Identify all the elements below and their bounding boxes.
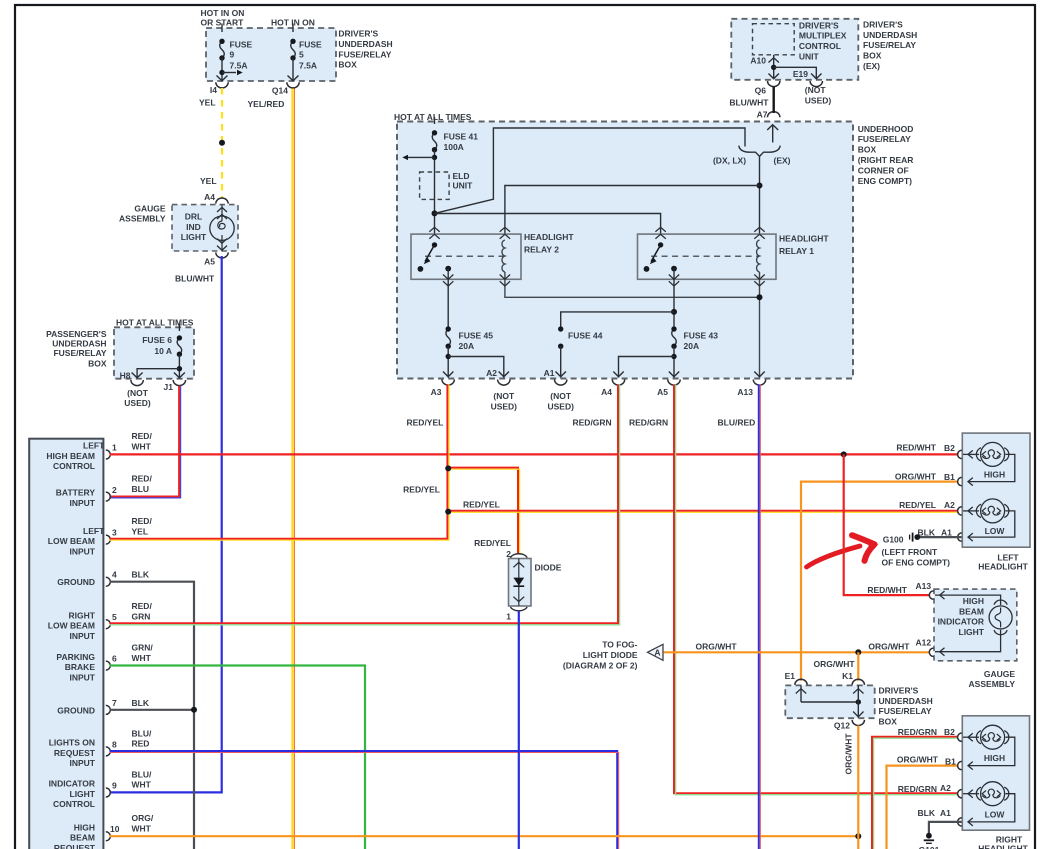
A1 connector (958, 533, 962, 541)
B2 connector (right) (958, 733, 962, 741)
svg-text:USED): USED) (547, 401, 574, 411)
svg-text:INPUT: INPUT (70, 546, 96, 556)
svg-text:BATTERY: BATTERY (56, 488, 96, 498)
svg-text:RED/GRN: RED/GRN (898, 784, 937, 794)
multiplex output wire (773, 55, 775, 79)
svg-text:LIGHT: LIGHT (181, 232, 207, 242)
H8 connector (131, 380, 143, 386)
svg-text:H8: H8 (120, 371, 131, 381)
svg-text:LIGHTS ON: LIGHTS ON (49, 738, 95, 748)
svg-text:A13: A13 (916, 581, 932, 591)
svg-text:BLU/: BLU/ (132, 769, 152, 779)
A4 exit arrow (613, 372, 623, 377)
wire RED/YEL A3 to pin 3 (110, 385, 448, 539)
A2 connector (958, 507, 962, 515)
svg-text:10: 10 (110, 824, 120, 834)
branch to H8 (137, 369, 179, 378)
wire YEL dashed I4 to A4 (221, 88, 223, 199)
I4 exit arrow (217, 76, 228, 81)
svg-text:7.5A: 7.5A (299, 61, 317, 71)
svg-text:HIGH: HIGH (984, 753, 1005, 763)
driver's multiplex control unit box (753, 24, 795, 55)
svg-text:BEAM: BEAM (959, 606, 984, 616)
svg-text:3: 3 (112, 528, 117, 538)
svg-text:BLK: BLK (918, 808, 936, 818)
svg-text:RED/YEL: RED/YEL (899, 500, 936, 510)
fuse 45 output to A3 (447, 346, 449, 377)
svg-text:7: 7 (112, 698, 117, 708)
svg-text:INDICATOR: INDICATOR (49, 779, 95, 789)
E1 internal wire (800, 685, 802, 702)
branch to E19 (774, 67, 817, 78)
svg-text:HEADLIGHT: HEADLIGHT (978, 561, 1028, 571)
pin 6 connector (106, 661, 111, 670)
relay 1 coil (757, 240, 760, 272)
wire ORG/WHT fog line to A12 (664, 651, 930, 653)
svg-text:GROUND: GROUND (57, 577, 95, 587)
relay 1 output contact (671, 266, 677, 272)
svg-text:RED/WHT: RED/WHT (896, 443, 936, 453)
K1 internal wire to Q12 (857, 685, 859, 717)
relay 2 armature dashed link (425, 255, 505, 257)
svg-text:PASSENGER'S: PASSENGER'S (46, 329, 107, 339)
pin 10 connector (106, 832, 111, 841)
svg-text:WHT: WHT (132, 824, 152, 834)
B1 connector (958, 477, 962, 485)
svg-text:B2: B2 (944, 727, 955, 737)
right high beam return wire (968, 737, 1015, 765)
svg-text:GRN/: GRN/ (132, 643, 154, 653)
fuse 41 down wire (434, 150, 436, 235)
svg-text:9: 9 (230, 50, 235, 60)
A2 exit arrow (499, 372, 509, 377)
svg-text:A5: A5 (657, 387, 668, 397)
left high beam bulb (976, 448, 981, 461)
fuse 5 output wire (292, 58, 294, 80)
Q6 connector (768, 81, 780, 87)
svg-text:BLU/WHT: BLU/WHT (175, 274, 215, 284)
B2 connector (958, 450, 962, 458)
wire ORG/WHT right B1 (887, 766, 958, 849)
A7 connector (from multiplex) (768, 112, 780, 118)
svg-text:Q6: Q6 (755, 85, 767, 95)
svg-text:RED/YEL: RED/YEL (474, 538, 511, 548)
diode entry arrows (513, 562, 524, 567)
wire ORG/WHT left headlight B1 to E1 (801, 482, 958, 681)
A1 exit arrow (556, 372, 566, 377)
left high beam return wire (968, 454, 1015, 481)
branch to A2 (448, 357, 504, 378)
svg-text:CORNER OF: CORNER OF (858, 165, 909, 175)
svg-text:ORG/WHT: ORG/WHT (897, 755, 939, 765)
svg-text:(EX): (EX) (863, 61, 880, 71)
DRL indicator bulb (221, 205, 223, 221)
svg-text:A1: A1 (544, 368, 555, 378)
svg-text:(DX, LX): (DX, LX) (713, 156, 746, 166)
svg-text:FUSE 45: FUSE 45 (459, 331, 494, 341)
A1 connector (555, 380, 567, 386)
svg-text:B2: B2 (944, 443, 955, 453)
relay 1 switch (658, 242, 663, 247)
wire BLK A1 to ground G100 (920, 536, 962, 538)
svg-text:HOT AT ALL TIMES: HOT AT ALL TIMES (394, 112, 472, 122)
svg-text:YEL: YEL (132, 527, 149, 537)
svg-text:IND: IND (186, 222, 201, 232)
svg-text:BLK: BLK (132, 698, 150, 708)
pin 2 connector (106, 492, 111, 501)
headlight relay 1 box (638, 234, 777, 279)
svg-text:OF ENG COMPT): OF ENG COMPT) (882, 558, 951, 568)
svg-text:I4: I4 (210, 85, 217, 95)
svg-text:RED/YEL: RED/YEL (463, 500, 500, 510)
underhood fuse/relay box (397, 122, 853, 379)
fuse 5 supply stub (292, 24, 294, 33)
svg-text:ORG/WHT: ORG/WHT (868, 642, 910, 652)
svg-text:ELD: ELD (453, 171, 470, 181)
wire RED/GRN A4 to pin 5 (110, 385, 619, 624)
relay 1 armature dashed link (651, 255, 758, 257)
wire BLK pin7 to vertical (110, 709, 195, 711)
E19 connector (810, 81, 822, 87)
pin 1 connector (106, 450, 111, 459)
svg-text:HEADLIGHT: HEADLIGHT (779, 234, 829, 244)
right high beam bulb (976, 731, 981, 744)
svg-text:CONTROL: CONTROL (53, 461, 95, 471)
internal link E1 to K1 (801, 701, 858, 703)
wire BLU diode pin 1 down page (518, 611, 520, 849)
svg-text:WHT: WHT (132, 780, 152, 790)
svg-text:RELAY 2: RELAY 2 (524, 245, 559, 255)
svg-text:ORG/WHT: ORG/WHT (895, 471, 937, 481)
B1 connector (right) (958, 761, 962, 769)
svg-text:(NOT: (NOT (550, 391, 572, 401)
A3 connector (442, 380, 454, 386)
left headlight box (962, 433, 1030, 547)
wire BLU/WHT A5 to pin 9 (110, 256, 222, 792)
diode D box (509, 559, 532, 607)
I4 connector (216, 82, 228, 88)
svg-text:USED): USED) (124, 398, 151, 408)
svg-text:FUSE/RELAY: FUSE/RELAY (858, 134, 911, 144)
merge brace (DX,LX)/(EX) (739, 146, 780, 157)
relay 2 switch input arrows (429, 227, 439, 238)
page frame left border (14, 4, 16, 849)
svg-text:LOW BEAM: LOW BEAM (48, 621, 95, 631)
node on fuse 41 wire (432, 210, 438, 216)
wire RED/GRN A5 to right headlight A2 (674, 385, 958, 794)
left high beam bulb feed (963, 453, 979, 455)
fuse 41 supply stub (434, 117, 436, 124)
svg-text:A4: A4 (601, 387, 612, 397)
svg-text:GAUGE: GAUGE (134, 204, 166, 214)
A5 exit arrow (669, 372, 679, 377)
high beam indicator bulb (994, 600, 1007, 605)
svg-text:INPUT: INPUT (70, 672, 96, 682)
headlight relay 2 box (411, 234, 521, 279)
right headlight box (962, 716, 1029, 830)
svg-text:USED): USED) (491, 401, 518, 411)
driver's underdash fuse/relay box (EX) top right (731, 19, 858, 80)
svg-text:DIODE: DIODE (535, 563, 562, 573)
wire ORG/WHT pin10 to Q12 junction (110, 835, 859, 837)
fuse 5 element (291, 41, 296, 58)
svg-text:LIGHT DIODE: LIGHT DIODE (583, 650, 638, 660)
svg-text:RELAY 1: RELAY 1 (779, 246, 814, 256)
A13 connector (929, 591, 933, 599)
svg-text:A2: A2 (486, 368, 497, 378)
pin 5 connector (106, 620, 111, 629)
pin 8 connector (106, 747, 111, 756)
svg-text:BOX: BOX (858, 145, 877, 155)
svg-text:100A: 100A (444, 142, 464, 152)
svg-text:DRL: DRL (185, 212, 202, 222)
svg-text:FUSE/RELAY: FUSE/RELAY (863, 40, 916, 50)
ELD unit box (420, 172, 450, 199)
wire BLU/RED A13 down page (758, 385, 760, 849)
svg-text:B1: B1 (944, 472, 955, 482)
Q14 exit arrow (288, 76, 299, 81)
svg-text:YEL: YEL (200, 176, 217, 186)
gauge assembly box (high beam indicator) (934, 589, 1017, 661)
svg-text:INPUT: INPUT (70, 758, 96, 768)
svg-text:REQUEST: REQUEST (54, 748, 96, 758)
svg-text:RED/YEL: RED/YEL (403, 485, 440, 495)
svg-text:(LEFT FRONT: (LEFT FRONT (882, 547, 939, 557)
A5 connector (668, 380, 680, 386)
wire BLK A1 to ground G101 (929, 822, 962, 833)
svg-text:5: 5 (299, 50, 304, 60)
svg-text:WHT: WHT (132, 653, 152, 663)
Q14 connector (287, 82, 299, 88)
svg-text:8: 8 (112, 739, 117, 749)
ground G100 (914, 534, 920, 540)
pin 3 connector (106, 535, 111, 544)
svg-text:RED: RED (132, 739, 150, 749)
svg-text:(RIGHT REAR: (RIGHT REAR (858, 155, 914, 165)
diode pin 1 connector (510, 607, 527, 611)
svg-text:RED/: RED/ (132, 431, 153, 441)
svg-text:LOW: LOW (985, 526, 1006, 536)
relay 1 output wire down (673, 269, 675, 330)
wire EX bus down to relay 1 coil (759, 156, 761, 240)
svg-text:FUSE/RELAY: FUSE/RELAY (338, 49, 391, 59)
svg-text:WHT: WHT (132, 441, 152, 451)
svg-text:DRIVER'S: DRIVER'S (338, 29, 378, 39)
svg-text:USED): USED) (805, 95, 832, 105)
svg-text:A2: A2 (940, 783, 951, 793)
svg-text:(EX): (EX) (774, 156, 791, 166)
pin 7 connector (106, 705, 111, 714)
svg-text:YEL/RED: YEL/RED (248, 99, 285, 109)
svg-text:(NOT: (NOT (493, 391, 515, 401)
(EX) entry arrow (767, 125, 778, 130)
svg-text:G101: G101 (919, 845, 940, 849)
svg-text:UNDERHOOD: UNDERHOOD (858, 124, 914, 134)
right low beam bulb (976, 787, 981, 800)
indicator feed wire (935, 595, 1001, 605)
svg-text:DRIVER'S: DRIVER'S (879, 686, 919, 696)
wire branch to relay 2 coil (505, 186, 760, 241)
svg-text:(NOT: (NOT (805, 85, 827, 95)
svg-text:GROUND: GROUND (57, 705, 95, 715)
svg-text:RED/YEL: RED/YEL (407, 418, 444, 428)
wire RED/YEL branch to diode pin 2 (447, 468, 518, 554)
wire RED/GRN right B2 (872, 737, 958, 849)
relay 2 switch (432, 242, 437, 247)
wire RED/WHT pin1 to left headlight B2 (110, 453, 958, 455)
svg-text:HOT AT ALL TIMES: HOT AT ALL TIMES (116, 318, 194, 328)
J1 connector (173, 380, 185, 386)
A13 exit arrow (754, 372, 764, 377)
driver's underdash fuse/relay box (top left) (206, 28, 336, 81)
A1 connector (right) (958, 818, 962, 826)
svg-text:LOW: LOW (985, 810, 1006, 820)
svg-text:HIGH: HIGH (963, 596, 984, 606)
svg-text:RED/WHT: RED/WHT (867, 585, 907, 595)
svg-text:(NOT: (NOT (127, 388, 149, 398)
svg-text:ORG/WHT: ORG/WHT (844, 733, 854, 775)
svg-text:PARKING: PARKING (56, 652, 95, 662)
svg-text:FUSE 6: FUSE 6 (142, 335, 172, 345)
svg-text:A1: A1 (940, 808, 951, 818)
svg-text:1: 1 (506, 612, 511, 622)
svg-text:HIGH: HIGH (74, 823, 95, 833)
junction on RED/WHT (841, 451, 847, 457)
pin 4 connector (106, 577, 111, 586)
E19 exit arrow (811, 74, 821, 79)
red annotation arrow (807, 546, 861, 567)
svg-text:RED/GRN: RED/GRN (898, 727, 937, 737)
svg-text:K1: K1 (842, 671, 853, 681)
wire ORG/WHT junction down to K1 (857, 652, 859, 680)
fuse 45 element (446, 329, 451, 346)
wire BLU/RED pin8 down page (110, 751, 618, 849)
svg-text:GAUGE: GAUGE (984, 669, 1016, 679)
relay 1 switch input arrows (655, 227, 665, 238)
svg-text:E1: E1 (785, 671, 796, 681)
A4 connector (612, 380, 624, 386)
passenger's underdash fuse/relay box (114, 327, 194, 378)
svg-text:6: 6 (112, 654, 117, 664)
svg-text:BLU/RED: BLU/RED (718, 418, 756, 428)
svg-text:BOX: BOX (879, 716, 898, 726)
svg-text:CONTROL: CONTROL (53, 799, 95, 809)
fuse 43 element (672, 329, 677, 346)
right low beam bulb feed (963, 793, 979, 795)
svg-text:LIGHT: LIGHT (70, 789, 96, 799)
svg-text:FUSE: FUSE (230, 40, 253, 50)
svg-text:ENG COMPT): ENG COMPT) (858, 176, 912, 186)
svg-text:HEADLIGHT: HEADLIGHT (978, 844, 1028, 849)
fuse 44 (empty slot) (558, 326, 563, 331)
svg-text:ORG/: ORG/ (132, 813, 154, 823)
svg-text:BLK: BLK (132, 570, 150, 580)
A2 connector (right) (958, 790, 962, 798)
left low beam bulb feed (963, 510, 979, 512)
svg-text:A2: A2 (944, 500, 955, 510)
A13 connector (753, 380, 765, 386)
svg-text:ORG/WHT: ORG/WHT (696, 642, 738, 652)
svg-text:J1: J1 (164, 382, 174, 392)
splice dot on YEL wire (219, 140, 225, 146)
svg-text:UNIT: UNIT (799, 51, 820, 61)
relay 1 coil output wire to A13 (759, 272, 761, 378)
svg-text:YEL: YEL (199, 98, 216, 108)
svg-text:UNDERDASH: UNDERDASH (338, 39, 392, 49)
svg-text:2: 2 (112, 485, 117, 495)
page frame top border (14, 4, 1035, 6)
svg-text:BOX: BOX (863, 51, 882, 61)
wire ORG/WHT Q12 down page (857, 726, 859, 849)
svg-text:FUSE 41: FUSE 41 (444, 132, 479, 142)
relay 2 coil output wire (505, 272, 760, 297)
indicator return wire (935, 630, 1001, 652)
fuse 9 output wire and branch arrow (221, 58, 223, 80)
junction dots on A3 riser (445, 465, 451, 471)
E1 connector (795, 679, 807, 685)
A12 connector (929, 648, 933, 656)
branch to fuse 44 (561, 312, 674, 329)
fuse 6 element (177, 338, 182, 354)
svg-text:INPUT: INPUT (70, 631, 96, 641)
svg-text:FUSE 44: FUSE 44 (568, 331, 603, 341)
relay 2 output wire to fuse 45 (447, 269, 449, 330)
A2 connector (498, 380, 510, 386)
svg-text:INPUT: INPUT (70, 498, 96, 508)
right low beam return wire (968, 794, 1015, 822)
svg-text:RED/GRN: RED/GRN (629, 418, 668, 428)
svg-text:A7: A7 (757, 109, 768, 119)
svg-text:RED/: RED/ (132, 474, 153, 484)
svg-text:RIGHT: RIGHT (69, 610, 96, 620)
diode exit arrows (513, 597, 524, 602)
svg-text:4: 4 (112, 570, 117, 580)
svg-text:7.5A: 7.5A (230, 61, 248, 71)
svg-text:HIGH BEAM: HIGH BEAM (46, 451, 95, 461)
right high beam bulb feed (963, 736, 979, 738)
svg-text:LEFT: LEFT (83, 526, 105, 536)
left low beam bulb (976, 504, 981, 517)
svg-text:ASSEMBLY: ASSEMBLY (119, 214, 166, 224)
wire RED/WHT branch to high beam indicator A13 (844, 454, 930, 595)
svg-text:RED/: RED/ (132, 516, 153, 526)
pin 9 connector (106, 788, 111, 797)
svg-text:DRIVER'S: DRIVER'S (799, 20, 839, 30)
svg-text:B1: B1 (945, 757, 956, 767)
driver's underdash fuse/relay box (E1/K1) (785, 685, 874, 718)
left connector box (DRL control unit) (29, 439, 103, 849)
svg-text:A4: A4 (204, 192, 215, 202)
fuse 9 element (220, 41, 225, 58)
svg-text:FUSE 43: FUSE 43 (684, 331, 719, 341)
A3 exit arrow (443, 372, 453, 377)
svg-text:FUSE/RELAY: FUSE/RELAY (879, 706, 932, 716)
svg-text:BLU: BLU (132, 484, 149, 494)
wire BLK pin4 down page (110, 582, 195, 849)
svg-text:FUSE/RELAY: FUSE/RELAY (53, 348, 106, 358)
svg-text:TO FOG-: TO FOG- (602, 640, 637, 650)
svg-text:RED/GRN: RED/GRN (573, 418, 612, 428)
svg-text:BLU/WHT: BLU/WHT (729, 98, 769, 108)
svg-text:A5: A5 (204, 257, 215, 267)
svg-text:G100: G100 (883, 535, 904, 545)
J1 exit arrow (174, 373, 185, 378)
A5 exit arrows (217, 239, 227, 251)
Q12 connector (852, 720, 864, 726)
H8 exit arrow (132, 373, 143, 378)
svg-text:LOW BEAM: LOW BEAM (48, 536, 95, 546)
svg-text:(DIAGRAM 2 OF 2): (DIAGRAM 2 OF 2) (563, 661, 638, 671)
